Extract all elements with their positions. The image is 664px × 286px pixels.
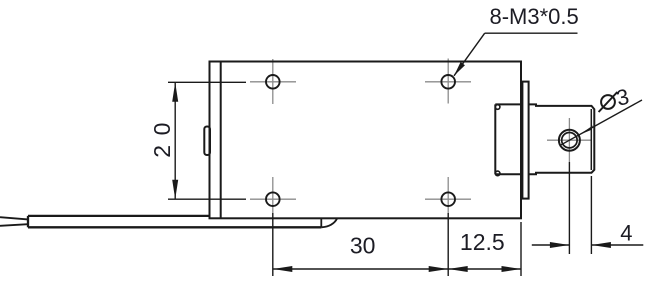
svg-text:4: 4 [620,221,632,246]
svg-text:8-M3*0.5: 8-M3*0.5 [490,4,579,29]
svg-text:2: 2 [149,145,175,158]
svg-text:3: 3 [614,84,631,111]
svg-text:0: 0 [149,123,175,136]
svg-text:12.5: 12.5 [460,229,505,255]
svg-text:30: 30 [350,233,376,259]
